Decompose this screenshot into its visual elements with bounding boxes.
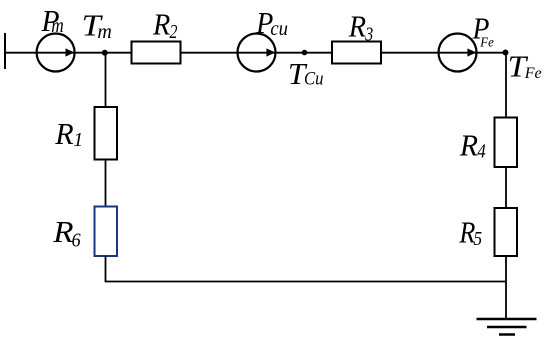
wire left branch upper <box>105 53 107 107</box>
svg-text:Fe: Fe <box>524 65 542 82</box>
wire right branch middle <box>505 167 507 208</box>
wire main horizontal <box>5 52 506 54</box>
svg-text:3: 3 <box>365 23 374 45</box>
svg-text:R: R <box>54 116 73 151</box>
wire right branch lower <box>505 256 507 319</box>
label R4 <box>459 128 486 163</box>
svg-text:R: R <box>459 128 478 163</box>
label T_m <box>82 8 112 44</box>
label P_Fe <box>472 10 494 49</box>
svg-text:5: 5 <box>474 228 483 250</box>
resistor R2 <box>132 42 181 64</box>
label R3 <box>348 9 373 46</box>
svg-text:4: 4 <box>477 140 486 162</box>
svg-text:Fe: Fe <box>479 34 493 49</box>
resistor R1 <box>95 107 118 160</box>
svg-text:R: R <box>152 7 170 42</box>
resistor R5 <box>495 208 518 256</box>
node T_m dot <box>102 50 108 56</box>
source P_cu circle <box>238 34 276 72</box>
svg-text:R: R <box>52 214 73 249</box>
source P_Fe arrowhead <box>467 48 476 56</box>
resistor R4 <box>495 118 518 168</box>
resistor R6 <box>95 207 118 257</box>
wire left branch middle <box>105 160 107 207</box>
wire left branch lower + bottom horizontal <box>106 256 507 282</box>
svg-text:Cu: Cu <box>304 69 324 90</box>
svg-text:1: 1 <box>73 129 83 151</box>
left terminal bar <box>4 33 6 69</box>
source P_m arrowhead <box>66 48 75 56</box>
source P_cu arrowhead <box>266 48 275 56</box>
source P_Fe circle <box>439 34 477 72</box>
label T_Cu <box>288 56 324 91</box>
svg-text:2: 2 <box>170 21 178 43</box>
svg-text:m: m <box>51 15 64 37</box>
wire right branch upper <box>505 53 507 118</box>
label R6 <box>52 214 80 251</box>
svg-text:m: m <box>97 21 111 43</box>
node T_Cu dot <box>302 50 308 56</box>
node T_Fe dot <box>503 50 509 56</box>
resistor R3 <box>332 42 381 64</box>
label R5 <box>459 215 483 250</box>
label T_Fe <box>508 49 542 84</box>
label P_cu <box>255 5 288 40</box>
svg-text:6: 6 <box>72 229 81 251</box>
source P_m circle <box>37 34 75 72</box>
svg-text:cu: cu <box>270 18 288 40</box>
svg-text:R: R <box>348 9 366 44</box>
ground <box>477 319 537 335</box>
label P_m <box>40 3 63 38</box>
label R2 <box>152 7 177 43</box>
label R1 <box>54 116 83 151</box>
